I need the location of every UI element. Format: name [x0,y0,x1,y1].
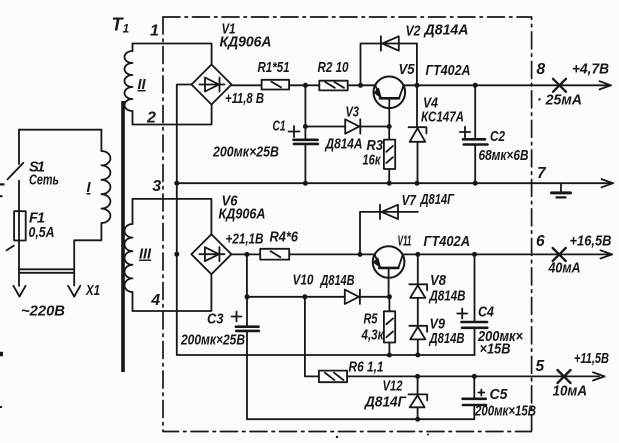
svg-text:3: 3 [152,178,161,195]
winding III [125,199,133,311]
node C4 tap [472,252,477,257]
svg-text:Д814В: Д814В [428,289,466,305]
svg-text:4: 4 [150,292,160,309]
svg-text:+4,7В: +4,7В [572,62,609,78]
svg-text:+21,1В: +21,1В [226,232,264,248]
svg-text:ГТ402А: ГТ402А [424,234,471,250]
resistor R1 [262,80,290,90]
transistor V5 [374,77,406,127]
wire [289,253,374,255]
bottom rail [247,418,474,420]
wire [348,84,376,86]
node C1 tap [303,83,308,88]
wire line 6 right [403,253,609,255]
svg-text:6: 6 [536,233,545,250]
resistor R2 [319,81,347,91]
svg-text:Т1: Т1 [112,15,130,36]
arrow line 6 [601,250,613,258]
node C1 bottom [303,181,308,186]
svg-text:V7: V7 [402,193,417,209]
svg-text:+11,8 В: +11,8 В [225,91,264,107]
switch S1 [8,130,24,286]
node R5 bottom [387,353,392,358]
node C2 bottom [473,181,478,186]
node V7 left [358,252,363,257]
svg-text:КД906А: КД906А [219,207,266,223]
svg-text:Д814А: Д814А [423,23,469,39]
svg-text:Д814В: Д814В [319,273,355,289]
svg-text:C3: C3 [207,312,224,328]
bus line 7 [177,182,611,184]
svg-text:2: 2 [146,110,156,127]
diode V3 [305,119,389,133]
x mark line 5 [558,370,571,383]
svg-text:V3: V3 [346,105,360,121]
node C2 tap [473,83,478,88]
svg-text:C4: C4 [478,305,494,321]
svg-text:C5: C5 [490,387,509,403]
winding I [74,130,110,286]
x mark line 8 [553,79,566,92]
fuse F1 [14,211,26,240]
resistor R6 [305,297,347,382]
svg-text:II: II [138,77,147,93]
wire line 8 right [404,84,608,86]
svg-text:4,3к: 4,3к [361,328,384,344]
diode V2 with loop [361,36,417,85]
svg-text:R1*51: R1*51 [258,60,290,76]
svg-text:Д814Г: Д814Г [419,192,455,208]
resistor R5 [384,297,395,355]
wire mains top [19,129,101,131]
zener V12 [408,376,427,419]
wire line 8 left [232,84,262,86]
svg-text:X1: X1 [85,283,100,299]
wire winding III top [133,199,212,235]
wire winding II top [133,44,212,65]
svg-text:R6 1,1: R6 1,1 [349,360,384,376]
node V12 top [415,374,420,379]
resistor R4 [260,249,289,260]
svg-text:×15В: ×15В [480,342,511,358]
svg-text:68мк×6В: 68мк×6В [479,148,529,164]
wire branch down to V10 line [246,254,248,296]
capacitor C2 [460,85,488,183]
node R3 bottom [387,181,392,186]
bridge rectifier V1 [192,65,232,105]
svg-text:R4*6: R4*6 [270,230,299,246]
bridge rectifier V6 [191,234,231,274]
svg-text:10мА: 10мА [553,384,588,400]
transistor V11 [373,246,405,297]
capacitor C1 [289,85,318,183]
arrow line 8 [600,81,612,89]
svg-text:V12: V12 [383,379,403,395]
svg-text:Д814А: Д814А [324,137,363,153]
bus mid 0V [177,354,475,356]
capacitor C4 [457,254,487,355]
svg-text:ГТ402А: ГТ402А [426,63,471,79]
node V11 base / R5 top [387,294,392,299]
x mark line 6 [553,248,566,261]
svg-text:R5: R5 [364,312,379,328]
svg-text:III: III [139,247,152,263]
zener V9 [409,326,427,355]
arrow line 5 [593,372,605,380]
node V2 right [415,83,420,88]
node bridge V1 neg bus junction [174,181,179,186]
zener V8 [409,254,427,325]
node V7 right [415,252,420,257]
svg-text:V5: V5 [399,62,416,78]
svg-text:0,5А: 0,5А [29,225,55,241]
mains cable double line [19,269,74,273]
wire line 6 left [231,253,260,255]
node V9 bottom [415,353,420,358]
node R6 branch [302,294,307,299]
node V3 right / R3 top [387,124,392,129]
svg-text:V2: V2 [406,24,421,40]
wire winding III bottom [133,274,212,311]
arrow ~220V left [13,286,25,297]
svg-text:~220В: ~220В [21,304,65,320]
svg-text:1: 1 [150,23,159,40]
node C5 tap [472,374,477,379]
svg-text:16к: 16к [363,153,381,169]
svg-text:КД906А: КД906А [220,35,272,51]
svg-text:5: 5 [536,358,545,375]
svg-text:200мк×25В: 200мк×25В [180,333,245,349]
svg-text:· 25мА: · 25мА [537,93,582,109]
diode V7 with loop [360,205,418,255]
svg-text:V11: V11 [398,234,412,250]
svg-text:Сеть: Сеть [29,173,59,189]
node bridge V6 neg junction [174,252,179,257]
wire winding II bottom [133,105,212,125]
svg-text:Д814Г: Д814Г [363,395,407,411]
capacitor C5 [463,376,486,419]
left edge print artifacts [0,183,429,438]
node V2 left [358,83,363,88]
ground [552,183,571,197]
svg-text:7: 7 [537,165,547,182]
node V10 left [245,294,250,299]
svg-text:+11,5В: +11,5В [574,351,609,367]
zener V4 [409,44,427,184]
node V3 left tap [303,124,308,129]
svg-text:8: 8 [537,61,546,78]
svg-text:R2 10: R2 10 [318,60,349,76]
svg-text:200мк×25В: 200мк×25В [212,145,279,161]
svg-text:V10: V10 [293,273,314,289]
svg-text:Д814В: Д814В [428,331,465,347]
transformer T1 core [121,101,125,372]
svg-text:КС147А: КС147А [421,110,464,126]
winding II [125,44,133,125]
wire V10 line [247,296,345,298]
node +21V branch [244,252,249,257]
diode V10 [345,290,390,304]
wire bridge V1 negative to bus [177,85,192,356]
arrow X1 right [68,286,80,297]
resistor R3 [384,127,395,184]
svg-text:C2: C2 [490,129,505,145]
svg-text:40мА: 40мА [548,261,581,277]
svg-text:V8: V8 [430,273,447,289]
module boundary dash-dot frame [163,17,532,432]
node V4 bottom [415,181,420,186]
wire line 5 [347,375,599,377]
svg-text:200мк×15В: 200мк×15В [474,404,536,420]
tick mark [7,246,14,251]
capacitor C3 [232,297,259,419]
svg-text:I: I [87,180,92,196]
arrow line 7 [602,179,614,187]
node V12 bottom [415,417,420,422]
svg-text:C1: C1 [273,119,286,135]
svg-text:+16,5В: +16,5В [570,234,612,250]
wire [289,84,319,86]
